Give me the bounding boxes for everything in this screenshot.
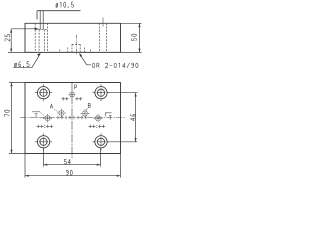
label B	[88, 103, 90, 107]
small holes below centerline	[37, 125, 106, 128]
leader T right	[105, 113, 111, 116]
port B	[81, 109, 90, 117]
center port hidden hole	[60, 44, 91, 52]
port T left	[43, 114, 52, 122]
dimension 25	[8, 29, 39, 53]
right hole hidden lines	[100, 23, 107, 52]
leader T left	[32, 111, 40, 113]
vertical centerline	[71, 83, 73, 159]
mounting hole bottom-right	[92, 133, 109, 150]
label T left	[35, 114, 38, 118]
horizontal centerline	[20, 117, 126, 119]
dimension 70	[9, 83, 25, 154]
small holes row under P	[62, 97, 83, 100]
left hole hidden lines (counterbore + through)	[35, 23, 47, 52]
mounting hole bottom-left	[35, 133, 52, 150]
port P	[69, 91, 76, 98]
port A	[57, 109, 66, 117]
label T right	[109, 115, 112, 119]
dimension 46	[107, 93, 137, 142]
label OR 2-014/90 and leader	[92, 63, 138, 68]
dimension 54	[44, 148, 101, 166]
mounting hole top-right	[92, 84, 109, 101]
stud lines above left hole	[40, 11, 43, 30]
right hole centerline	[102, 18, 104, 27]
label P	[75, 85, 77, 89]
bottom view plate outline	[25, 83, 121, 154]
center port centerline	[75, 35, 77, 55]
top view plate outline	[25, 23, 121, 52]
label dia10.5	[56, 2, 74, 8]
mounting hole top-left	[35, 84, 52, 101]
tick marks on horizontal centerline	[58, 116, 86, 119]
port T right	[94, 114, 103, 122]
label A	[50, 104, 53, 108]
dimension 50	[121, 23, 142, 52]
label dia6.5 and leader	[14, 62, 29, 67]
dia10.5 leader shelf and tick	[37, 11, 81, 20]
dimension 90	[25, 154, 121, 178]
